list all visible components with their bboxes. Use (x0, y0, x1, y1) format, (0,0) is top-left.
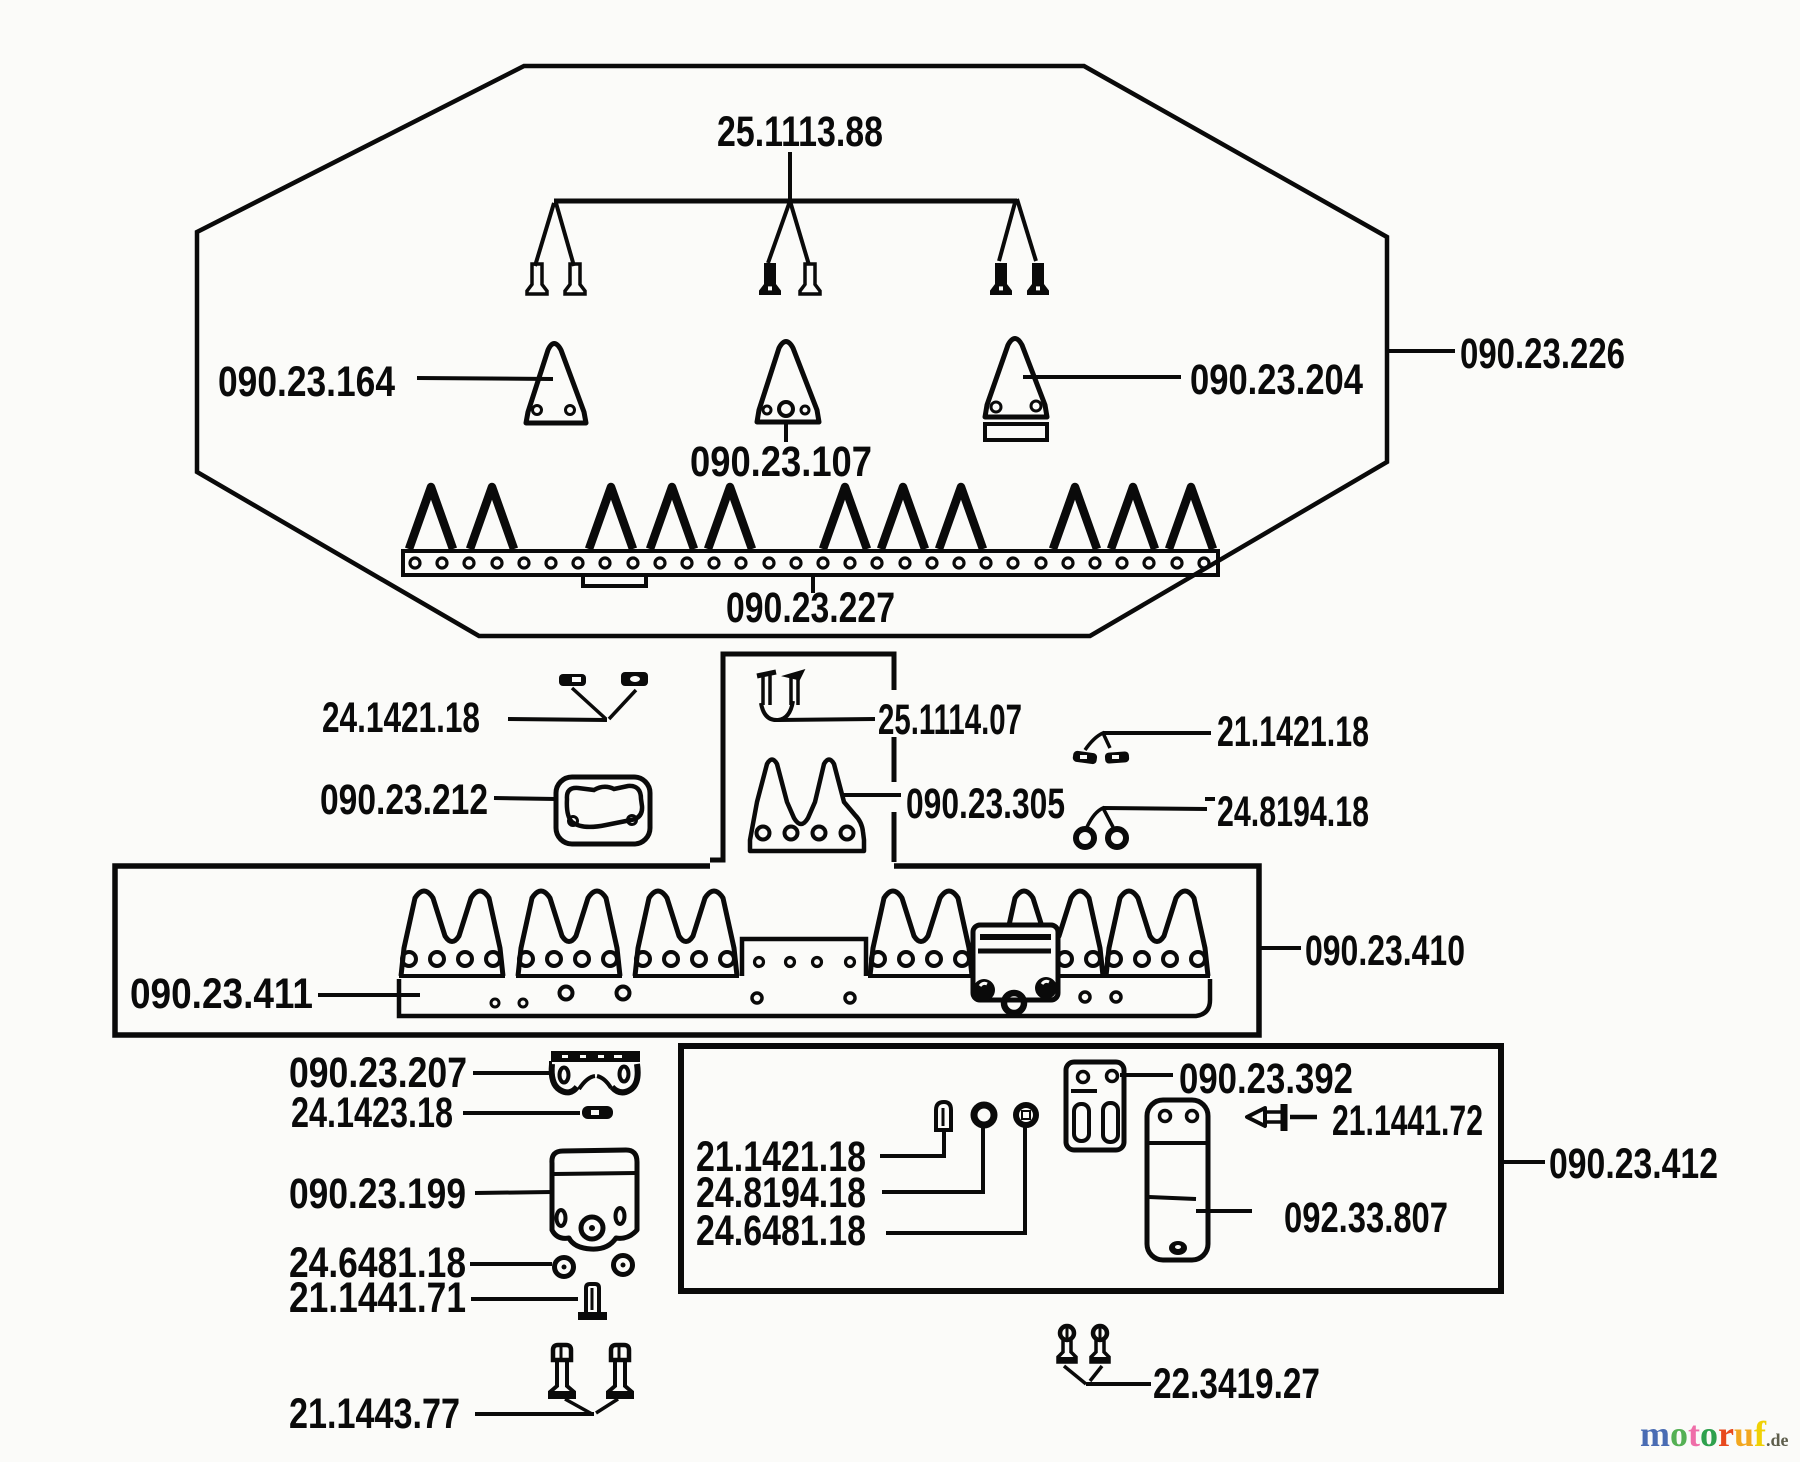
svg-text:090.23.212: 090.23.212 (320, 776, 488, 824)
fork 21.1443.77 (565, 1399, 592, 1414)
cutter bar 090.23.227 holes (410, 558, 420, 568)
svg-text:090.23.411: 090.23.411 (130, 970, 313, 1018)
leader 090.23.212 (494, 798, 556, 799)
knife section B (518, 891, 620, 976)
leader 22.3419.27 (1086, 1382, 1151, 1386)
nut 24.8194.18 (box) (974, 1105, 994, 1125)
svg-text:25.1113.88: 25.1113.88 (717, 108, 883, 156)
svg-text:21.1441.72: 21.1441.72 (1332, 1097, 1483, 1145)
leader 21.1421.18 (1103, 731, 1211, 735)
fork middle (768, 201, 790, 263)
knife back holes (491, 999, 499, 1007)
svg-text:090.23.226: 090.23.226 (1460, 330, 1625, 378)
svg-text:24.1421.18: 24.1421.18 (322, 694, 480, 742)
leader 24.6481.18 (470, 1262, 552, 1266)
fork 21.1421.18 (1085, 733, 1110, 750)
leader 25.1113.88 (788, 152, 792, 199)
bolts 22.3419.27 (1060, 1326, 1074, 1340)
plate 090.23.392 (1066, 1062, 1124, 1150)
T-box outline (710, 654, 894, 860)
leader 090.23.207 (473, 1071, 549, 1075)
svg-text:24.1423.18: 24.1423.18 (291, 1089, 453, 1137)
knife section A (090.23.410) (401, 891, 503, 976)
fastener pair 21.1421.18 (1072, 750, 1097, 764)
blade 090.23.204 (985, 339, 1047, 418)
leader 092.33.807 (1196, 1209, 1252, 1213)
svg-text:090.23.164: 090.23.164 (218, 358, 395, 406)
leader 24.8194.18 (box) (882, 1127, 983, 1192)
fork left (535, 203, 554, 266)
center plate (742, 939, 866, 976)
svg-text:21.1441.71: 21.1441.71 (289, 1274, 466, 1322)
label 24.8194.18 (right) (1205, 797, 1215, 801)
svg-text:092.33.807: 092.33.807 (1284, 1194, 1448, 1242)
svg-text:090.23.305: 090.23.305 (906, 780, 1065, 828)
leader 090.23.305 (842, 793, 901, 797)
svg-text:090.23.410: 090.23.410 (1305, 927, 1465, 975)
leader 090.23.412 (1504, 1160, 1545, 1164)
bolt 21.1441.71 (586, 1284, 599, 1312)
leader 21.1441.71 (471, 1297, 578, 1301)
knife section C (635, 891, 737, 976)
motoruf.de logo (1640, 1416, 1789, 1452)
leader 24.1421.18 (508, 719, 607, 720)
leader 090.23.199 (475, 1192, 552, 1193)
leader 21.1421.18 (box) (880, 1131, 944, 1156)
svg-text:21.1421.18: 21.1421.18 (1217, 708, 1369, 756)
washer 24.6481.18 (box) (1016, 1105, 1036, 1125)
pin 24.1423.18 (582, 1106, 613, 1119)
svg-text:090.23.392: 090.23.392 (1179, 1055, 1353, 1103)
leader 090.23.164 (417, 378, 553, 379)
rivet pair right (25.1113.88) (991, 264, 1011, 294)
leader 090.23.107 (784, 424, 788, 442)
washer pair 24.8194.18 (1076, 829, 1094, 847)
svg-text:090.23.199: 090.23.199 (289, 1170, 466, 1218)
cutter bar 090.23.227 body (403, 551, 1218, 575)
washers 24.6481.18 (555, 1258, 574, 1277)
svg-text:090.23.107: 090.23.107 (690, 438, 872, 486)
clamp 090.23.207 (551, 1051, 640, 1062)
head nut (1004, 993, 1024, 1013)
hook 25.1114.07 (761, 701, 793, 720)
leader 24.6481.18 (box) (886, 1127, 1025, 1233)
svg-text:24.6481.18: 24.6481.18 (696, 1207, 866, 1255)
leader 090.23.410 (1261, 946, 1301, 950)
blade 090.23.204 base strip (985, 424, 1047, 440)
blade 090.23.107 (757, 342, 819, 423)
cutter bar 090.23.227 teeth (409, 487, 453, 549)
hanger bar (554, 199, 1017, 204)
svg-text:090.23.412: 090.23.412 (1549, 1140, 1718, 1188)
wear plate 090.23.212 (556, 777, 650, 844)
leader 090.23.204 (1023, 375, 1181, 379)
fork 22.3419.27 (1064, 1366, 1086, 1384)
leader 21.1443.77 (475, 1412, 594, 1416)
svg-text:21.1443.77: 21.1443.77 (289, 1390, 460, 1438)
knife section E (1001, 891, 1103, 976)
knife section F (1106, 891, 1208, 976)
leader 25.1114.07 (778, 719, 875, 720)
knife section D (870, 891, 972, 976)
screws 25.1114.07 (757, 672, 776, 676)
pin 21.1421.18 (box) (936, 1102, 951, 1130)
leader 24.1423.18 (463, 1111, 580, 1115)
leader 090.23.227 (811, 576, 815, 593)
bolts 21.1443.77 (553, 1345, 571, 1360)
leader 090.23.411 (318, 993, 420, 997)
rivet pair left (25.1113.88) (527, 264, 547, 294)
blade 090.23.164 (526, 344, 586, 424)
svg-text:090.23.204: 090.23.204 (1190, 356, 1363, 404)
frame 090.23.412 (681, 1046, 1501, 1291)
svg-text:22.3419.27: 22.3419.27 (1153, 1360, 1320, 1408)
holder 090.23.199 (552, 1150, 637, 1249)
rivet pair middle (25.1113.88) (760, 264, 780, 294)
svg-text:25.1114.07: 25.1114.07 (878, 696, 1022, 744)
octagon outline (197, 66, 1387, 636)
knife back 090.23.411 (399, 979, 1210, 1016)
svg-text:24.8194.18: 24.8194.18 (1217, 788, 1369, 836)
T-box dashed edge (892, 737, 897, 782)
knife head (973, 925, 1058, 1000)
fork 24.8194.18 (1087, 808, 1113, 827)
frame 090.23.410 (115, 866, 1259, 1035)
plate 092.33.807 (1147, 1100, 1208, 1260)
fastener pair 24.1421.18 (559, 674, 586, 686)
fork right (999, 199, 1016, 261)
fork 24.1421.18 (572, 688, 606, 719)
svg-text:090.23.227: 090.23.227 (726, 584, 895, 632)
screw 21.1441.72 (1247, 1108, 1265, 1126)
leader 090.23.392 (1120, 1073, 1173, 1077)
knife section 090.23.305 (750, 760, 864, 852)
leader 090.23.226 (1389, 349, 1455, 353)
leader 24.8194.18 (1103, 808, 1207, 809)
cutter bar clip (583, 575, 646, 586)
